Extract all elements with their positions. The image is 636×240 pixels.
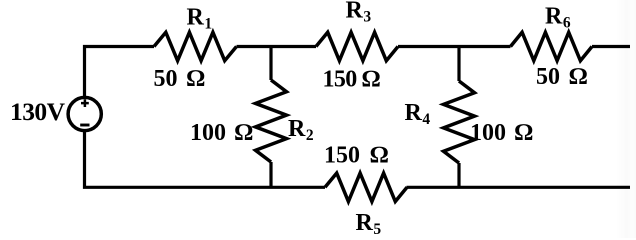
svg-text:R6: R6 <box>545 4 571 32</box>
wire: node B stub down to R4 <box>457 47 460 82</box>
svg-text:R2: R2 <box>288 116 314 144</box>
voltage source plus terminal <box>81 99 89 107</box>
wire: R4 to bottom node <box>457 163 460 187</box>
resistor R6 <box>511 32 593 60</box>
voltage source minus terminal <box>80 124 89 127</box>
wire top: R1 to R3 <box>237 45 317 48</box>
svg-text:R5: R5 <box>356 210 382 238</box>
resistor R1 <box>154 32 237 60</box>
resistor R4 <box>444 81 475 163</box>
svg-text:100 Ω: 100 Ω <box>470 120 533 146</box>
resistor R5 <box>325 173 407 201</box>
svg-text:100 Ω: 100 Ω <box>190 120 253 146</box>
svg-text:130V: 130V <box>10 97 66 126</box>
svg-text:R1: R1 <box>187 5 213 33</box>
svg-text:50 Ω: 50 Ω <box>154 66 205 92</box>
wire bottom: R5 to right edge <box>407 186 631 189</box>
wire top: R6 to right edge <box>592 45 630 48</box>
wire top: R3 to R6 <box>398 45 511 48</box>
wire top: source to R1 <box>85 47 155 98</box>
svg-text:R3: R3 <box>346 0 372 25</box>
svg-text:50 Ω: 50 Ω <box>536 64 587 90</box>
svg-text:R4: R4 <box>405 100 431 128</box>
svg-text:150 Ω: 150 Ω <box>324 143 388 169</box>
wire bottom: source to R5 <box>85 131 326 188</box>
wire: R2 to bottom node <box>269 162 272 187</box>
resistor R3 <box>316 32 398 60</box>
svg-text:150 Ω: 150 Ω <box>323 67 380 93</box>
resistor R2 <box>256 80 287 162</box>
voltage source V1 circle <box>68 97 101 130</box>
wire: node A stub down to R2 <box>269 47 272 81</box>
